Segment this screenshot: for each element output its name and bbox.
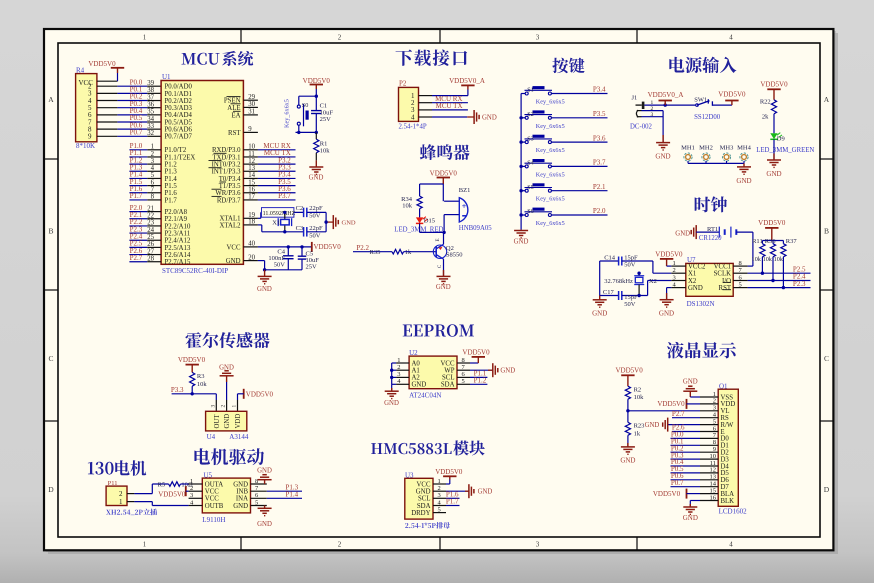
svg-text:9: 9 bbox=[88, 133, 92, 141]
svg-text:ALE: ALE bbox=[227, 105, 240, 112]
svg-text:1k: 1k bbox=[634, 430, 641, 437]
svg-text:Key_6x6x5: Key_6x6x5 bbox=[536, 171, 565, 178]
svg-text:P1.4: P1.4 bbox=[165, 176, 178, 183]
svg-text:P2.0: P2.0 bbox=[593, 207, 606, 215]
svg-text:1: 1 bbox=[143, 34, 147, 42]
svg-text:MCU TX: MCU TX bbox=[436, 102, 463, 110]
svg-text:32.768kHz: 32.768kHz bbox=[604, 278, 633, 285]
svg-text:33: 33 bbox=[147, 123, 154, 130]
svg-text:Key_6x6x5: Key_6x6x5 bbox=[284, 99, 291, 128]
svg-text:Key_6x6x5: Key_6x6x5 bbox=[536, 220, 565, 227]
svg-text:2: 2 bbox=[221, 405, 227, 408]
svg-text:15pF: 15pF bbox=[624, 254, 638, 261]
svg-text:S8550: S8550 bbox=[446, 252, 463, 259]
svg-text:EA: EA bbox=[231, 112, 240, 119]
svg-text:GND: GND bbox=[436, 284, 451, 291]
svg-text:VCC: VCC bbox=[205, 496, 219, 503]
svg-text:23: 23 bbox=[147, 220, 154, 227]
svg-text:R1: R1 bbox=[320, 141, 328, 148]
svg-text:Key_6x6x5: Key_6x6x5 bbox=[536, 147, 565, 154]
svg-text:VDD5V0: VDD5V0 bbox=[435, 468, 463, 476]
svg-text:VDD5V0: VDD5V0 bbox=[657, 400, 685, 408]
svg-text:4: 4 bbox=[151, 165, 155, 172]
svg-text:GND: GND bbox=[659, 309, 674, 317]
svg-text:GND: GND bbox=[226, 258, 241, 265]
svg-text:VCC: VCC bbox=[205, 489, 219, 496]
svg-text:X1: X1 bbox=[688, 271, 696, 278]
svg-text:5: 5 bbox=[438, 506, 441, 513]
svg-text:P0.5/AD5: P0.5/AD5 bbox=[165, 119, 193, 126]
svg-text:P1.5: P1.5 bbox=[165, 183, 178, 190]
svg-text:CR1220: CR1220 bbox=[699, 235, 722, 242]
svg-text:GND: GND bbox=[342, 219, 356, 226]
svg-text:20: 20 bbox=[248, 254, 255, 261]
svg-text:P3.3: P3.3 bbox=[171, 386, 184, 394]
svg-text:1: 1 bbox=[232, 405, 238, 408]
svg-text:P1.7: P1.7 bbox=[130, 192, 143, 200]
svg-text:8: 8 bbox=[255, 478, 258, 485]
svg-text:P3.6: P3.6 bbox=[593, 134, 606, 142]
svg-text:R4: R4 bbox=[76, 67, 85, 75]
svg-text:OUTA: OUTA bbox=[205, 481, 223, 488]
svg-text:2: 2 bbox=[438, 485, 441, 492]
svg-text:3: 3 bbox=[151, 158, 155, 165]
svg-text:MH2: MH2 bbox=[699, 144, 713, 151]
svg-text:S0: S0 bbox=[302, 102, 309, 109]
svg-text:P2.7: P2.7 bbox=[672, 410, 685, 418]
svg-text:31: 31 bbox=[248, 109, 255, 116]
svg-text:2: 2 bbox=[338, 34, 342, 42]
svg-text:8: 8 bbox=[739, 260, 742, 267]
svg-text:35: 35 bbox=[147, 109, 154, 116]
svg-text:2: 2 bbox=[190, 485, 193, 492]
svg-text:10k: 10k bbox=[634, 394, 645, 401]
svg-text:P0.7: P0.7 bbox=[671, 479, 684, 487]
svg-text:DS1302N: DS1302N bbox=[687, 300, 715, 308]
svg-text:GND: GND bbox=[416, 489, 431, 496]
svg-text:17: 17 bbox=[248, 194, 255, 201]
svg-text:15pF: 15pF bbox=[624, 294, 638, 301]
svg-text:P2.6/A14: P2.6/A14 bbox=[165, 252, 191, 259]
svg-text:11: 11 bbox=[248, 151, 255, 158]
svg-text:HNB09A05: HNB09A05 bbox=[459, 225, 492, 232]
svg-text:1: 1 bbox=[143, 541, 147, 549]
svg-text:OUT: OUT bbox=[214, 414, 221, 429]
svg-text:U1: U1 bbox=[162, 73, 171, 81]
svg-text:8*10K: 8*10K bbox=[76, 142, 95, 150]
svg-text:8: 8 bbox=[151, 194, 155, 201]
svg-text:30: 30 bbox=[248, 101, 255, 108]
svg-text:P3.4: P3.4 bbox=[593, 86, 606, 94]
svg-text:GND: GND bbox=[412, 382, 427, 389]
svg-text:GND: GND bbox=[224, 414, 231, 429]
svg-text:10k: 10k bbox=[774, 256, 784, 263]
svg-text:S1: S1 bbox=[527, 87, 534, 94]
svg-text:C3: C3 bbox=[296, 225, 304, 232]
svg-text:VDD5V0: VDD5V0 bbox=[88, 60, 116, 68]
svg-text:VDD5V0_A: VDD5V0_A bbox=[449, 77, 485, 85]
svg-text:SCLK: SCLK bbox=[714, 271, 731, 278]
svg-text:GND: GND bbox=[384, 400, 399, 407]
svg-text:11.0592MHZ: 11.0592MHZ bbox=[263, 211, 296, 217]
svg-text:RST: RST bbox=[228, 130, 241, 137]
svg-text:D9: D9 bbox=[777, 136, 785, 143]
svg-text:1: 1 bbox=[119, 498, 123, 506]
svg-text:GND: GND bbox=[500, 367, 515, 374]
svg-text:26: 26 bbox=[147, 241, 154, 248]
svg-text:14: 14 bbox=[248, 172, 255, 179]
svg-text:R2: R2 bbox=[634, 386, 642, 393]
svg-text:P0.0/AD0: P0.0/AD0 bbox=[165, 84, 193, 91]
svg-text:P2.1: P2.1 bbox=[593, 183, 606, 191]
svg-text:Key_6x6x5: Key_6x6x5 bbox=[536, 123, 565, 130]
svg-text:VDD5V0_A: VDD5V0_A bbox=[648, 91, 684, 99]
svg-text:LED_3MM_GREEN: LED_3MM_GREEN bbox=[756, 147, 814, 154]
svg-text:VDD5V0: VDD5V0 bbox=[462, 348, 490, 356]
svg-text:1k: 1k bbox=[405, 249, 412, 256]
svg-text:C: C bbox=[48, 354, 53, 363]
svg-text:D15: D15 bbox=[424, 218, 435, 225]
svg-text:3: 3 bbox=[536, 541, 540, 549]
svg-text:VDD5V0: VDD5V0 bbox=[616, 366, 644, 374]
svg-text:RT1: RT1 bbox=[707, 226, 718, 233]
svg-text:BLK: BLK bbox=[721, 498, 735, 505]
svg-text:A: A bbox=[48, 95, 54, 104]
svg-text:VDD5V0: VDD5V0 bbox=[158, 490, 186, 498]
svg-text:5: 5 bbox=[151, 172, 155, 179]
svg-text:SCL: SCL bbox=[418, 496, 430, 503]
svg-text:15: 15 bbox=[248, 179, 255, 186]
svg-text:2: 2 bbox=[119, 490, 123, 498]
svg-text:27: 27 bbox=[147, 248, 154, 255]
svg-text:A0: A0 bbox=[412, 360, 421, 367]
svg-text:P3.7: P3.7 bbox=[278, 192, 291, 200]
svg-text:GND: GND bbox=[514, 239, 529, 246]
svg-text:P0.4/AD4: P0.4/AD4 bbox=[165, 112, 193, 119]
svg-text:1: 1 bbox=[397, 357, 400, 364]
svg-text:6: 6 bbox=[151, 179, 155, 186]
svg-text:10k: 10k bbox=[197, 381, 208, 388]
svg-text:VDD: VDD bbox=[235, 414, 242, 429]
svg-text:P2.2: P2.2 bbox=[356, 244, 369, 252]
svg-text:P2.1/A9: P2.1/A9 bbox=[165, 216, 188, 223]
svg-text:GND: GND bbox=[683, 378, 698, 385]
svg-text:10: 10 bbox=[248, 144, 255, 151]
svg-text:10k: 10k bbox=[752, 256, 762, 263]
svg-text:C: C bbox=[824, 354, 829, 363]
svg-text:P1.2: P1.2 bbox=[474, 377, 487, 385]
svg-text:GND: GND bbox=[478, 489, 493, 496]
svg-text:RST: RST bbox=[719, 285, 732, 292]
svg-text:3: 3 bbox=[210, 405, 216, 408]
svg-text:DRDY: DRDY bbox=[411, 510, 430, 517]
svg-text:INT1/P3.3: INT1/P3.3 bbox=[212, 169, 241, 176]
svg-text:VDD5V0: VDD5V0 bbox=[653, 490, 681, 498]
svg-text:P0.2/AD2: P0.2/AD2 bbox=[165, 98, 193, 105]
svg-text:3: 3 bbox=[190, 492, 193, 499]
svg-text:P0.1/AD1: P0.1/AD1 bbox=[165, 91, 192, 98]
svg-text:P0.6/AD6: P0.6/AD6 bbox=[165, 127, 193, 134]
svg-text:2k: 2k bbox=[762, 113, 769, 120]
svg-text:2: 2 bbox=[397, 364, 400, 371]
svg-text:VCC: VCC bbox=[441, 360, 455, 367]
svg-text:VCC1: VCC1 bbox=[714, 263, 731, 270]
svg-text:P2.3/A11: P2.3/A11 bbox=[165, 230, 191, 237]
svg-text:36: 36 bbox=[147, 101, 154, 108]
svg-text:10k: 10k bbox=[402, 203, 413, 210]
svg-text:VDD5V0: VDD5V0 bbox=[655, 250, 683, 258]
svg-text:12: 12 bbox=[248, 158, 255, 165]
svg-text:38: 38 bbox=[147, 87, 154, 94]
svg-text:LCD1602: LCD1602 bbox=[719, 507, 748, 515]
svg-text:24: 24 bbox=[147, 227, 154, 234]
svg-text:AT24C04N: AT24C04N bbox=[409, 391, 441, 399]
svg-text:4: 4 bbox=[411, 113, 415, 121]
svg-text:D: D bbox=[48, 485, 54, 494]
svg-text:VCC2: VCC2 bbox=[688, 263, 706, 270]
svg-text:VCC: VCC bbox=[417, 481, 431, 488]
svg-text:P0.7: P0.7 bbox=[130, 129, 143, 137]
svg-text:P3.5: P3.5 bbox=[593, 110, 606, 118]
svg-text:STC89C52RC-40I-DIP: STC89C52RC-40I-DIP bbox=[162, 267, 228, 275]
svg-text:P0.3/AD3: P0.3/AD3 bbox=[165, 105, 193, 112]
svg-text:1: 1 bbox=[438, 478, 441, 485]
svg-text:T1/P3.5: T1/P3.5 bbox=[219, 183, 241, 190]
svg-text:SS12D00: SS12D00 bbox=[694, 114, 721, 121]
svg-text:9: 9 bbox=[248, 126, 252, 133]
svg-text:25V: 25V bbox=[306, 264, 318, 271]
svg-text:R11: R11 bbox=[752, 238, 763, 245]
svg-text:I/O: I/O bbox=[722, 278, 731, 285]
svg-text:P3.7: P3.7 bbox=[593, 159, 606, 167]
svg-text:50V: 50V bbox=[274, 262, 286, 269]
svg-text:INB: INB bbox=[236, 489, 248, 496]
svg-text:INA: INA bbox=[236, 496, 248, 503]
svg-text:GND: GND bbox=[233, 503, 248, 510]
svg-text:4: 4 bbox=[729, 34, 733, 42]
svg-text:13: 13 bbox=[248, 165, 255, 172]
svg-text:C2: C2 bbox=[296, 205, 304, 212]
svg-text:P2.0/A8: P2.0/A8 bbox=[165, 209, 188, 216]
svg-text:R22: R22 bbox=[760, 99, 771, 106]
svg-text:MH4: MH4 bbox=[737, 144, 751, 151]
svg-text:50V: 50V bbox=[309, 233, 321, 240]
svg-text:P1.2: P1.2 bbox=[165, 162, 178, 169]
svg-text:B: B bbox=[48, 227, 53, 236]
svg-text:22pF: 22pF bbox=[309, 225, 323, 232]
svg-text:P1.3: P1.3 bbox=[165, 169, 178, 176]
svg-text:25V: 25V bbox=[320, 116, 332, 123]
svg-text:10k: 10k bbox=[320, 148, 331, 155]
svg-text:P2.2/A10: P2.2/A10 bbox=[165, 223, 191, 230]
svg-text:J1: J1 bbox=[632, 95, 638, 102]
svg-text:S6: S6 bbox=[527, 208, 534, 215]
svg-text:28: 28 bbox=[147, 256, 154, 263]
svg-text:P0.7/AD7: P0.7/AD7 bbox=[165, 134, 193, 141]
svg-text:DC-002: DC-002 bbox=[630, 124, 653, 131]
svg-text:WP: WP bbox=[444, 368, 454, 375]
svg-text:21: 21 bbox=[147, 205, 154, 212]
svg-text:GND: GND bbox=[736, 177, 751, 185]
svg-text:2: 2 bbox=[673, 267, 676, 274]
svg-text:GND: GND bbox=[683, 514, 698, 522]
svg-text:GND: GND bbox=[257, 467, 272, 474]
svg-text:RD/P3.7: RD/P3.7 bbox=[217, 197, 241, 204]
svg-text:50V: 50V bbox=[309, 213, 321, 220]
svg-text:7: 7 bbox=[151, 187, 155, 194]
svg-text:5: 5 bbox=[739, 281, 742, 288]
svg-text:GND: GND bbox=[688, 285, 703, 292]
svg-text:10k: 10k bbox=[763, 256, 773, 263]
svg-text:OUTB: OUTB bbox=[205, 503, 224, 510]
svg-text:SDA: SDA bbox=[417, 503, 431, 510]
svg-text:1: 1 bbox=[151, 144, 154, 151]
svg-text:37: 37 bbox=[147, 94, 154, 101]
svg-text:GND: GND bbox=[766, 170, 781, 178]
svg-text:R23: R23 bbox=[634, 422, 645, 429]
svg-text:25: 25 bbox=[147, 234, 154, 241]
svg-text:P1.6: P1.6 bbox=[165, 190, 178, 197]
svg-text:GND: GND bbox=[645, 422, 660, 429]
svg-text:5: 5 bbox=[255, 499, 258, 506]
svg-text:S4: S4 bbox=[527, 160, 534, 167]
svg-text:P1.0/T2: P1.0/T2 bbox=[165, 147, 187, 154]
svg-text:P2: P2 bbox=[399, 80, 407, 88]
svg-text:X1: X1 bbox=[272, 220, 280, 227]
svg-text:P1.7: P1.7 bbox=[165, 197, 178, 204]
svg-text:SDA: SDA bbox=[441, 382, 455, 389]
svg-text:16: 16 bbox=[710, 494, 717, 501]
svg-text:VDD5V0: VDD5V0 bbox=[718, 91, 746, 99]
svg-text:VDD5V0: VDD5V0 bbox=[178, 356, 206, 364]
svg-text:50V: 50V bbox=[624, 301, 636, 308]
svg-text:R5: R5 bbox=[158, 481, 166, 488]
svg-text:X2: X2 bbox=[649, 278, 657, 285]
svg-text:GND: GND bbox=[482, 114, 497, 121]
svg-text:XTAL2: XTAL2 bbox=[220, 222, 242, 229]
svg-text:GND: GND bbox=[675, 231, 690, 238]
svg-text:1: 1 bbox=[673, 260, 676, 267]
svg-text:C17: C17 bbox=[603, 289, 615, 296]
svg-text:C1: C1 bbox=[320, 103, 328, 110]
svg-text:P1.7: P1.7 bbox=[446, 498, 459, 506]
svg-text:39: 39 bbox=[147, 80, 154, 87]
svg-text:S3: S3 bbox=[527, 135, 534, 142]
svg-text:22: 22 bbox=[147, 213, 154, 220]
svg-text:8: 8 bbox=[462, 357, 465, 364]
svg-text:18: 18 bbox=[248, 219, 255, 226]
svg-text:VDD5V0: VDD5V0 bbox=[430, 169, 458, 177]
svg-text:GND: GND bbox=[257, 286, 272, 293]
svg-text:P2.7: P2.7 bbox=[130, 254, 143, 262]
svg-text:P2.7/A15: P2.7/A15 bbox=[165, 259, 191, 266]
svg-text:P1.1/T2EX: P1.1/T2EX bbox=[165, 154, 196, 161]
svg-text:U4: U4 bbox=[207, 433, 216, 441]
svg-text:P2.5/A13: P2.5/A13 bbox=[165, 245, 191, 252]
svg-text:VDD5V0: VDD5V0 bbox=[303, 77, 331, 85]
svg-text:50V: 50V bbox=[624, 261, 636, 268]
svg-text:D: D bbox=[824, 485, 830, 494]
svg-text:VCC: VCC bbox=[227, 244, 241, 251]
svg-text:VDD5V0: VDD5V0 bbox=[758, 219, 786, 227]
svg-text:GND: GND bbox=[592, 309, 607, 317]
svg-text:34: 34 bbox=[147, 116, 154, 123]
svg-text:3: 3 bbox=[536, 34, 540, 42]
svg-text:GND: GND bbox=[257, 521, 272, 528]
svg-text:E: E bbox=[436, 238, 441, 241]
svg-text:22pF: 22pF bbox=[309, 205, 323, 212]
svg-text:A: A bbox=[824, 95, 830, 104]
svg-text:5: 5 bbox=[462, 378, 465, 385]
svg-text:VDD5V0: VDD5V0 bbox=[246, 390, 274, 398]
svg-text:GND: GND bbox=[309, 174, 324, 181]
svg-text:32: 32 bbox=[147, 130, 154, 137]
svg-text:R36: R36 bbox=[765, 238, 777, 245]
svg-text:R3: R3 bbox=[197, 373, 205, 380]
svg-text:R37: R37 bbox=[786, 238, 798, 245]
svg-text:+: + bbox=[462, 202, 467, 211]
svg-text:BZ1: BZ1 bbox=[459, 187, 471, 194]
svg-text:R35: R35 bbox=[370, 249, 381, 256]
svg-text:A1: A1 bbox=[412, 368, 420, 375]
svg-text:MH3: MH3 bbox=[720, 144, 734, 151]
svg-text:X2: X2 bbox=[688, 278, 697, 285]
svg-text:2: 2 bbox=[151, 151, 155, 158]
svg-text:40: 40 bbox=[248, 241, 255, 248]
svg-text:29: 29 bbox=[248, 94, 255, 101]
svg-text:Key_6x6x5: Key_6x6x5 bbox=[536, 196, 565, 203]
svg-text:P2.4/A12: P2.4/A12 bbox=[165, 238, 191, 245]
svg-text:S2: S2 bbox=[527, 111, 534, 118]
svg-text:3: 3 bbox=[673, 274, 676, 281]
svg-text:A3144: A3144 bbox=[229, 433, 249, 441]
svg-text:2.54-1*4P: 2.54-1*4P bbox=[399, 123, 427, 130]
svg-text:MH1: MH1 bbox=[681, 144, 695, 151]
svg-text:P2.3: P2.3 bbox=[793, 280, 806, 288]
svg-text:Key_6x6x5: Key_6x6x5 bbox=[536, 99, 565, 106]
svg-text:S5: S5 bbox=[527, 184, 534, 191]
svg-text:B: B bbox=[824, 227, 829, 236]
svg-text:C14: C14 bbox=[604, 254, 616, 261]
svg-text:16: 16 bbox=[248, 187, 255, 194]
svg-text:L9110H: L9110H bbox=[202, 516, 225, 524]
svg-text:VDD5V0: VDD5V0 bbox=[760, 80, 788, 88]
svg-text:3: 3 bbox=[438, 492, 441, 499]
svg-text:P1.4: P1.4 bbox=[285, 491, 298, 499]
svg-text:GND: GND bbox=[620, 456, 635, 464]
svg-text:GND: GND bbox=[655, 152, 670, 160]
svg-text:GND: GND bbox=[233, 481, 248, 488]
svg-text:VDD5V0: VDD5V0 bbox=[314, 243, 342, 251]
svg-text:4: 4 bbox=[729, 541, 733, 549]
svg-text:2: 2 bbox=[338, 541, 342, 549]
svg-text:1: 1 bbox=[190, 478, 193, 485]
